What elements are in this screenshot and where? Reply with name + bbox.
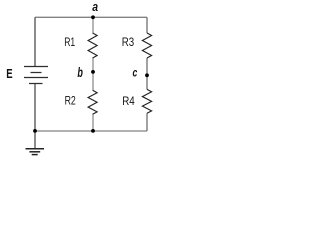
svg-text:R2: R2 [65,93,76,107]
svg-text:R4: R4 [122,94,135,108]
svg-text:c: c [133,68,138,80]
svg-text:R3: R3 [122,35,135,49]
svg-text:R1: R1 [64,35,75,49]
svg-text:a: a [92,0,98,14]
svg-text:b: b [77,64,83,80]
svg-text:E: E [6,66,13,81]
